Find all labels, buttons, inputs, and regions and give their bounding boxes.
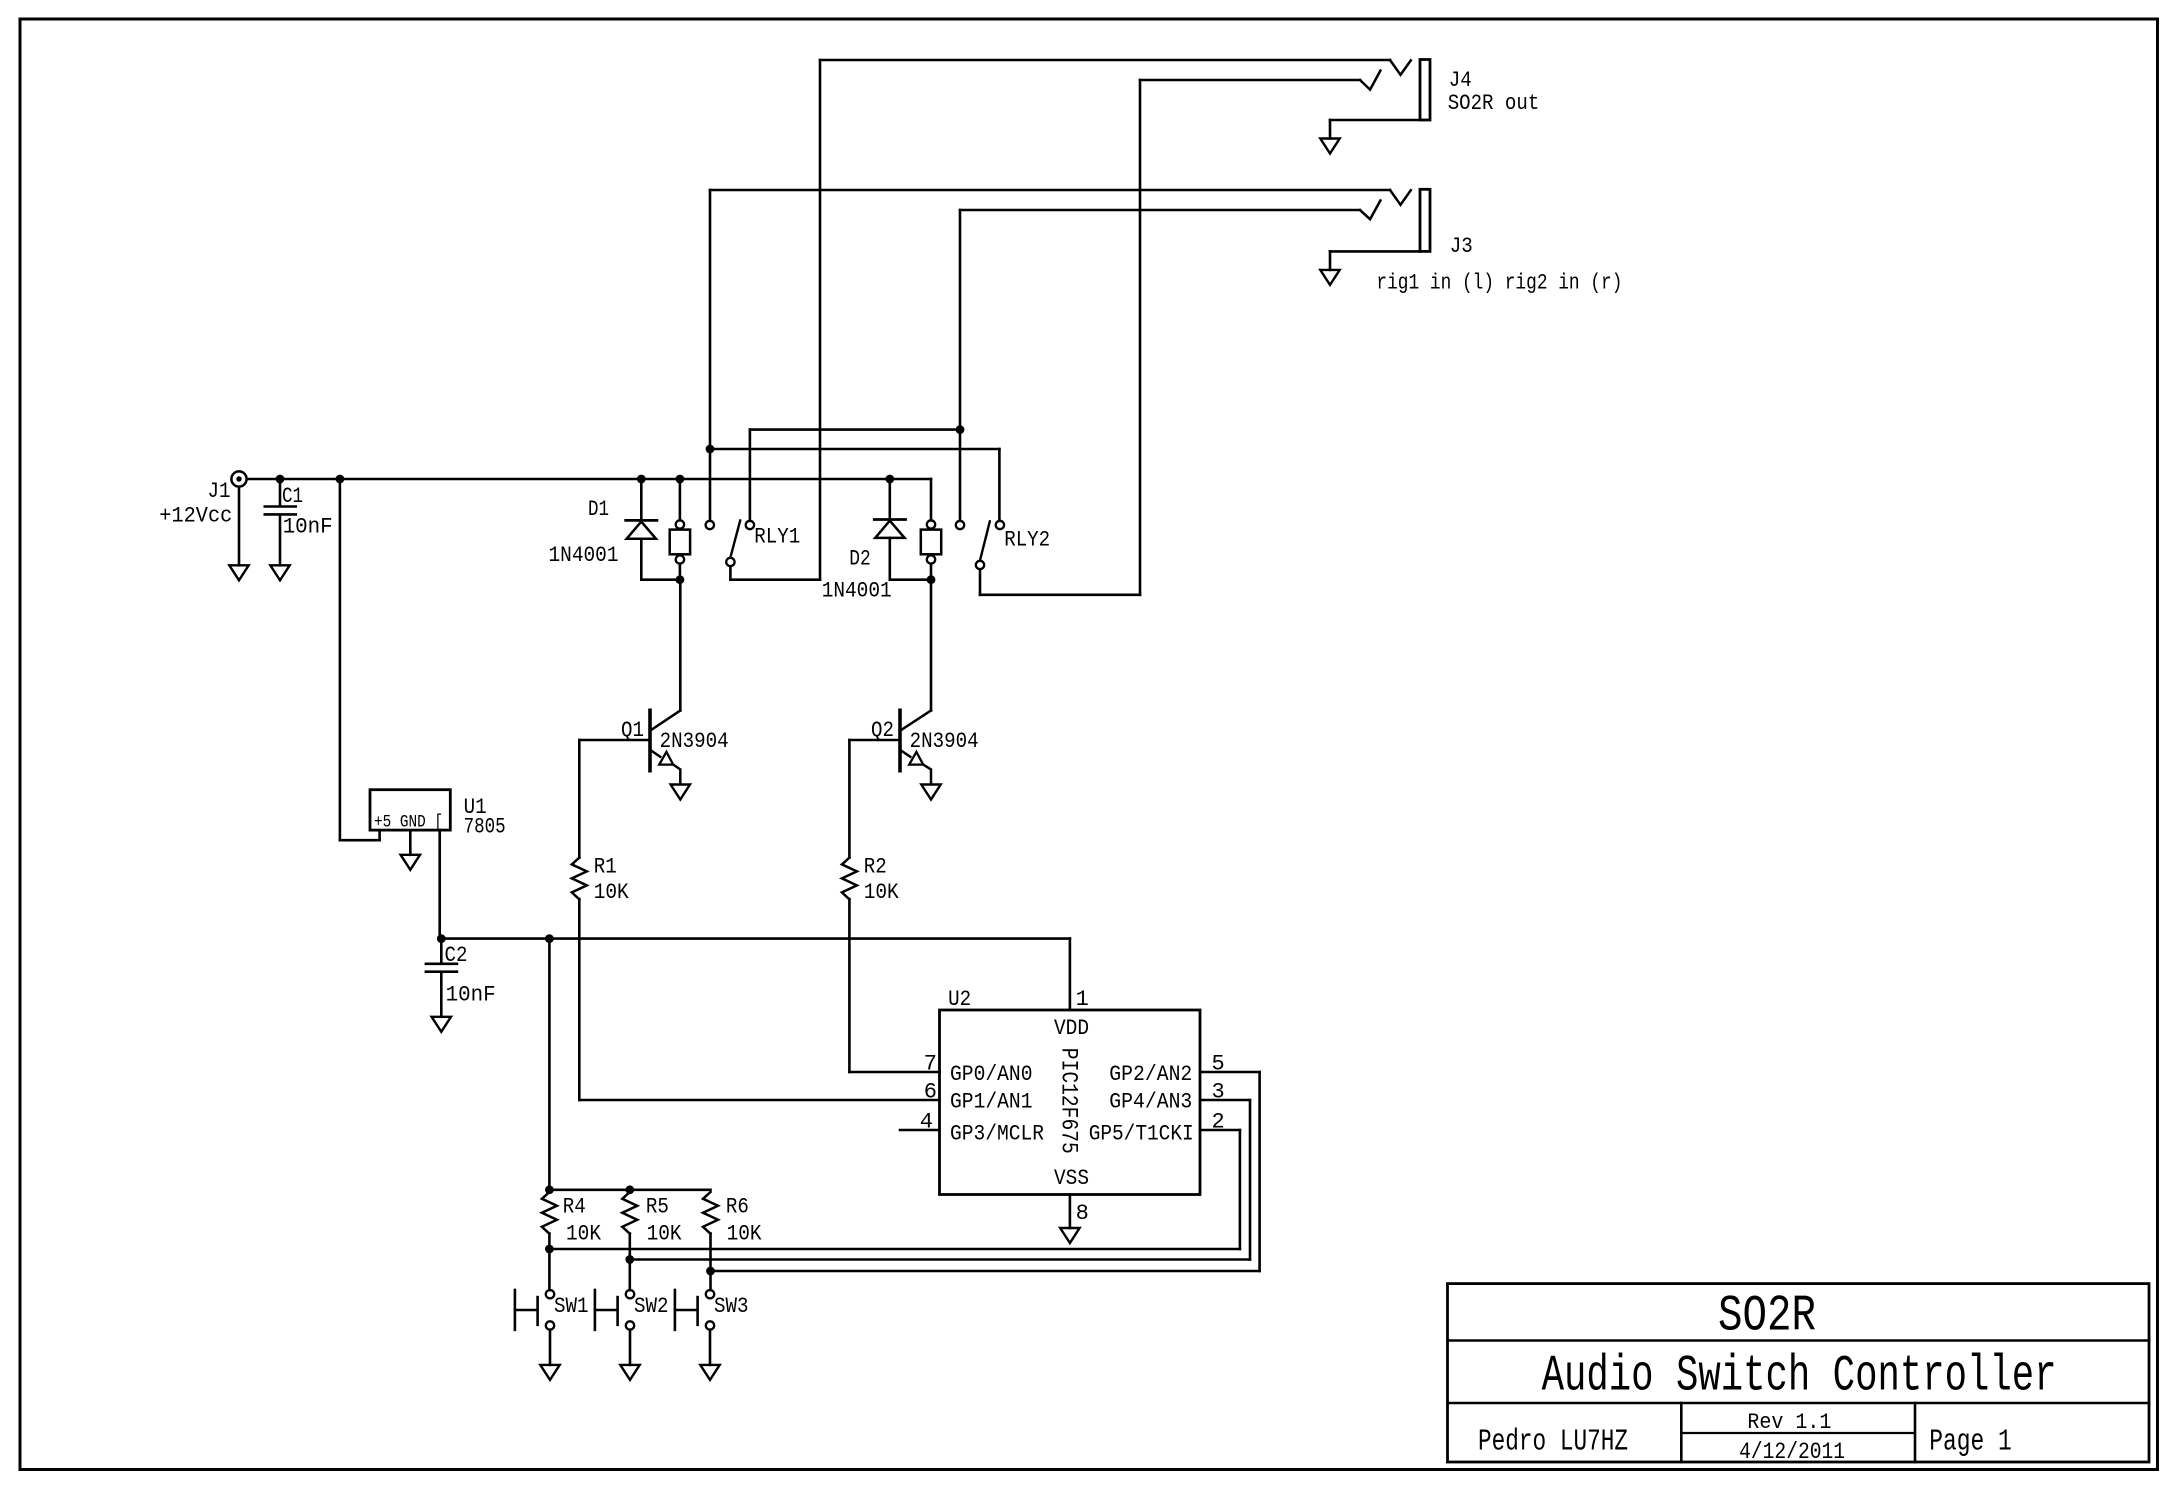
wire U2 VSS pin 8 xyxy=(1069,1195,1072,1229)
svg-text:SW1: SW1 xyxy=(554,1294,589,1319)
node J3tip-RLY2 wire junction xyxy=(706,445,715,454)
wire +5V down to U2 pin1 xyxy=(1069,939,1072,1010)
resistor R6 xyxy=(703,1192,718,1234)
svg-text:C1: C1 xyxy=(282,484,303,509)
wire J4 ring drop xyxy=(1139,80,1142,595)
wire RLY2 coil bottom xyxy=(930,564,933,580)
node rail-D2 junction xyxy=(885,475,894,484)
svg-text:rig1 in (l) rig2 in (r): rig1 in (l) rig2 in (r) xyxy=(1376,271,1622,296)
label Q2 xyxy=(871,718,894,743)
title author Pedro LU7HZ xyxy=(1478,1425,1628,1460)
label RLY2 xyxy=(1004,528,1050,553)
pin 5 label xyxy=(1212,1052,1225,1077)
connector J4 jack body xyxy=(1420,60,1430,121)
svg-text:GP1/AN1: GP1/AN1 xyxy=(950,1090,1033,1115)
title block xyxy=(1448,1284,2150,1462)
ground at C1 xyxy=(270,565,289,580)
title date 4/12/2011 xyxy=(1739,1439,1845,1465)
wire J1 ground stem xyxy=(238,487,241,565)
wire RLY2 to Q2 collector xyxy=(930,580,933,711)
wire C1 top xyxy=(279,479,282,506)
wire Q1 base xyxy=(579,739,650,742)
svg-text:SW2: SW2 xyxy=(634,1294,669,1319)
svg-text:Audio Switch Controller: Audio Switch Controller xyxy=(1542,1349,2057,1406)
svg-text:+5 GND [: +5 GND [ xyxy=(374,813,443,833)
ground at SW1 xyxy=(540,1365,559,1380)
svg-text:GP3/MCLR: GP3/MCLR xyxy=(950,1121,1044,1146)
wire Q1 base to R1 xyxy=(578,740,581,858)
label U2 GP3/MCLR xyxy=(950,1121,1044,1146)
svg-text:PIC12F675: PIC12F675 xyxy=(1056,1048,1082,1154)
resistor R5 xyxy=(622,1192,637,1234)
ground at J1 xyxy=(229,565,248,580)
wire J3 ring drop xyxy=(959,210,962,521)
svg-text:10nF: 10nF xyxy=(446,983,496,1008)
ground at C2 xyxy=(432,1017,451,1032)
label U2 GP5/T1CKI xyxy=(1089,1121,1194,1146)
resistor R1 xyxy=(572,858,587,900)
label D1 xyxy=(588,497,609,522)
label C1 xyxy=(282,484,303,509)
relay coil RLY1 xyxy=(670,520,690,563)
svg-text:10K: 10K xyxy=(566,1222,602,1247)
wire SW1 ground stem xyxy=(549,1330,552,1365)
capacitor C2 xyxy=(426,964,457,972)
label U2 VDD xyxy=(1054,1016,1089,1041)
wire J4 tip drop xyxy=(819,60,822,580)
svg-text:1: 1 xyxy=(1076,987,1089,1012)
svg-text:+12Vcc: +12Vcc xyxy=(159,504,232,529)
svg-text:RLY2: RLY2 xyxy=(1004,528,1050,553)
resistor R4 xyxy=(542,1192,557,1234)
wire +12V to U1 input xyxy=(340,479,380,840)
label Q1 xyxy=(621,718,644,743)
svg-text:10nF: 10nF xyxy=(283,515,333,540)
wire Q2 base xyxy=(849,739,900,742)
wire J3 tip line xyxy=(710,190,1411,205)
label R4 value 10K xyxy=(566,1222,602,1247)
svg-text:R5: R5 xyxy=(646,1195,669,1220)
ground at SW2 xyxy=(620,1365,639,1380)
label D2 value 1N4001 xyxy=(822,579,892,604)
svg-text:J4: J4 xyxy=(1449,68,1472,93)
svg-text:10K: 10K xyxy=(647,1222,683,1247)
label U1 pins +5 GND [ xyxy=(374,813,443,833)
svg-text:R1: R1 xyxy=(594,855,617,880)
label SW3 xyxy=(714,1294,749,1319)
pin 4 GP3/MCLR stub xyxy=(900,1129,940,1132)
pin 3 label xyxy=(1212,1080,1225,1105)
transistor Q2 2N3904 xyxy=(900,710,931,784)
label U2 GP1/AN1 xyxy=(950,1090,1033,1115)
label C2 value 10nF xyxy=(446,983,496,1008)
svg-text:GP0/AN0: GP0/AN0 xyxy=(950,1062,1033,1087)
svg-text:Rev 1.1: Rev 1.1 xyxy=(1747,1410,1831,1435)
svg-text:RLY1: RLY1 xyxy=(754,525,800,550)
capacitor C1 xyxy=(265,507,296,515)
node J3ring-RLY1 wire junction xyxy=(956,425,965,434)
relay contacts RLY1 xyxy=(706,521,755,567)
label R1 xyxy=(594,855,617,880)
node rail-C1 junction xyxy=(276,475,285,484)
title Audio Switch Controller xyxy=(1542,1349,2057,1406)
label R6 value 10K xyxy=(727,1222,763,1247)
ground at U2 VSS xyxy=(1060,1228,1079,1243)
svg-text:D2: D2 xyxy=(849,547,871,572)
switch SW2 xyxy=(595,1290,634,1330)
label R6 xyxy=(726,1195,749,1220)
wire J4 sleeve xyxy=(1330,120,1420,139)
pin 1 label xyxy=(1076,987,1089,1012)
node rail-RLY1 coil junction xyxy=(676,475,685,484)
svg-text:10K: 10K xyxy=(727,1222,763,1247)
pin 7 label xyxy=(924,1052,937,1077)
diode D2 1N4001 xyxy=(874,520,905,538)
diode D1 1N4001 xyxy=(626,520,657,538)
wire C2 bottom xyxy=(440,973,443,1017)
relay coil RLY2 xyxy=(921,520,941,563)
node R5-GP4 junction xyxy=(625,1255,634,1264)
label R5 xyxy=(646,1195,669,1220)
pin 2 label xyxy=(1212,1110,1225,1135)
pin 4 label xyxy=(920,1110,933,1135)
wire GP2 pin5 to R6 net xyxy=(711,1072,1260,1271)
label U1 value 7805 xyxy=(464,815,506,840)
svg-text:7805: 7805 xyxy=(464,815,506,840)
label R2 xyxy=(864,855,887,880)
svg-text:GP4/AN3: GP4/AN3 xyxy=(1109,1090,1192,1115)
wire D1 anode xyxy=(641,539,680,580)
node R4 feed junction xyxy=(545,934,554,943)
voltage regulator U1 7805 xyxy=(370,790,450,830)
svg-text:VDD: VDD xyxy=(1054,1016,1089,1041)
label U2 xyxy=(948,987,971,1012)
label C1 value 10nF xyxy=(283,515,333,540)
label U2 GP4/AN3 xyxy=(1109,1090,1192,1115)
wire GP5 pin2 to R4 net xyxy=(549,1130,1240,1249)
label R5 value 10K xyxy=(647,1222,683,1247)
svg-text:D1: D1 xyxy=(588,497,609,522)
switch SW1 xyxy=(515,1290,554,1330)
wire J3 sleeve xyxy=(1330,251,1420,270)
node rail-D1 junction xyxy=(637,475,646,484)
wire RLY1 coil top xyxy=(679,479,682,520)
wire +5V to R4 xyxy=(548,939,551,1190)
label Q1 value 2N3904 xyxy=(660,729,729,754)
svg-text:GP5/T1CKI: GP5/T1CKI xyxy=(1089,1121,1194,1146)
wire R5 bottom xyxy=(628,1234,631,1291)
label SW1 xyxy=(554,1294,589,1319)
node R4 top junction xyxy=(545,1185,554,1194)
svg-text:6: 6 xyxy=(924,1080,937,1105)
label U2 part PIC12F675 xyxy=(1056,1048,1082,1154)
svg-text:Pedro LU7HZ: Pedro LU7HZ xyxy=(1478,1425,1628,1460)
label R2 value 10K xyxy=(864,880,900,905)
wire J3 ring line xyxy=(960,201,1380,220)
ground at U1 xyxy=(401,855,420,870)
wire R4-R6 top bus xyxy=(549,1189,710,1192)
svg-text:4/12/2011: 4/12/2011 xyxy=(1739,1439,1845,1465)
ground at J3 xyxy=(1320,270,1339,285)
svg-text:SO2R: SO2R xyxy=(1718,1289,1816,1346)
wire SW2 ground stem xyxy=(629,1330,632,1365)
label D1 value 1N4001 xyxy=(549,543,619,568)
wire J4 tip line xyxy=(820,60,1411,75)
wire SW3 ground stem xyxy=(709,1330,712,1365)
svg-text:J3: J3 xyxy=(1450,234,1473,259)
label U2 GP0/AN0 xyxy=(950,1062,1033,1087)
wire J4 ring line xyxy=(1140,71,1380,90)
node R4-GP5 junction xyxy=(545,1245,554,1254)
wire cross to RLY1 fixed xyxy=(750,430,960,521)
transistor Q1 2N3904 xyxy=(650,710,680,784)
label RLY1 xyxy=(754,525,800,550)
ground at Q1 emitter xyxy=(671,785,690,800)
wire R6 bottom xyxy=(709,1234,712,1291)
wire RLY2 pole to J4 ring xyxy=(980,569,1140,595)
wire RLY1 coil bottom xyxy=(679,564,682,580)
svg-text:U2: U2 xyxy=(948,987,971,1012)
label D2 xyxy=(849,547,871,572)
label R4 xyxy=(563,1195,586,1220)
label U2 GP2/AN2 xyxy=(1109,1062,1192,1087)
wire RLY1 pole to J4 tip xyxy=(730,566,820,580)
label J4 xyxy=(1449,68,1472,93)
wire D1 cathode xyxy=(640,479,643,520)
pin 6 label xyxy=(924,1080,937,1105)
wire +5V rail xyxy=(440,937,1070,940)
node R6-GP2 junction xyxy=(706,1267,715,1276)
wire RLY2 coil top xyxy=(930,479,933,520)
label U1 xyxy=(464,795,487,820)
node R5 top junction xyxy=(625,1185,634,1194)
label C2 xyxy=(445,943,468,968)
wire +12V rail xyxy=(247,478,931,481)
wire R1 to U2 GP1 xyxy=(579,899,939,1100)
wire GP4 pin3 to R5 net xyxy=(630,1100,1250,1260)
ground at SW3 xyxy=(700,1365,719,1380)
wire R2 to U2 GP0 xyxy=(849,899,939,1072)
node RLY1 coil-D1 junction xyxy=(676,575,685,584)
switch SW3 xyxy=(675,1290,714,1330)
label J3 xyxy=(1450,234,1473,259)
svg-text:SW3: SW3 xyxy=(714,1294,749,1319)
svg-text:VSS: VSS xyxy=(1054,1166,1089,1191)
wire Q2 base to R2 xyxy=(848,740,851,858)
label R1 value 10K xyxy=(594,880,630,905)
svg-text:1N4001: 1N4001 xyxy=(549,543,619,568)
wire R4 bottom xyxy=(548,1234,551,1291)
svg-text:C2: C2 xyxy=(445,943,468,968)
IC U2 PIC12F675 xyxy=(940,1010,1201,1195)
svg-text:J1: J1 xyxy=(208,479,231,504)
pin 8 label xyxy=(1076,1201,1089,1226)
svg-text:2N3904: 2N3904 xyxy=(910,729,979,754)
wire U1 GND stub xyxy=(409,831,412,855)
resistor R2 xyxy=(842,858,857,900)
svg-text:8: 8 xyxy=(1076,1201,1089,1226)
svg-text:SO2R out: SO2R out xyxy=(1448,91,1540,116)
wire RLY1 to Q1 collector xyxy=(679,580,682,711)
label +12Vcc xyxy=(159,504,232,529)
wire J3 tip drop xyxy=(709,190,712,521)
relay contacts RLY2 xyxy=(956,521,1004,569)
svg-text:10K: 10K xyxy=(864,880,900,905)
ground at Q2 emitter xyxy=(921,785,940,800)
node RLY2 coil-D2 junction xyxy=(927,575,936,584)
svg-text:R2: R2 xyxy=(864,855,887,880)
label J4 SO2R out xyxy=(1448,91,1540,116)
svg-text:7: 7 xyxy=(924,1052,937,1077)
label Q2 value 2N3904 xyxy=(910,729,979,754)
ground at J4 xyxy=(1320,139,1339,154)
label U2 VSS xyxy=(1054,1166,1089,1191)
wire U1 output xyxy=(438,831,441,939)
svg-text:GP2/AN2: GP2/AN2 xyxy=(1109,1062,1192,1087)
svg-text:1N4001: 1N4001 xyxy=(822,579,892,604)
svg-text:2N3904: 2N3904 xyxy=(660,729,729,754)
title SO2R xyxy=(1718,1289,1816,1346)
svg-text:10K: 10K xyxy=(594,880,630,905)
title Page 1 xyxy=(1929,1425,2012,1460)
node rail-U1 junction xyxy=(336,475,345,484)
wire C1 bottom xyxy=(279,516,282,566)
svg-text:R6: R6 xyxy=(726,1195,749,1220)
label J1 xyxy=(208,479,231,504)
svg-text:Page 1: Page 1 xyxy=(1929,1425,2012,1460)
wire D2 cathode xyxy=(888,479,891,520)
label J3 rig inputs xyxy=(1376,271,1622,296)
title Rev 1.1 xyxy=(1747,1410,1831,1435)
label SW2 xyxy=(634,1294,669,1319)
wire C2 top xyxy=(440,939,443,964)
node C2 junction xyxy=(437,934,446,943)
connector J1 +12V input xyxy=(231,471,246,486)
wire D2 anode xyxy=(890,538,931,580)
connector J3 jack body xyxy=(1420,189,1430,251)
wire cross to RLY2 fixed xyxy=(710,449,999,521)
svg-text:R4: R4 xyxy=(563,1195,586,1220)
